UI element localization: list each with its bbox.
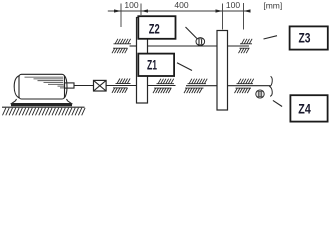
bearing shaft III right upper hatch bbox=[238, 79, 254, 84]
leader to shaft II circle bbox=[186, 27, 198, 39]
arrow tip right at x121 bbox=[114, 9, 121, 12]
svg-text:Z4: Z4 bbox=[298, 102, 311, 117]
arrow tip left at x243.5 bbox=[244, 9, 251, 12]
motor base foot bar bbox=[11, 104, 72, 107]
bearing shaft I right lower line bbox=[154, 87, 172, 89]
shaft III circled numeral bbox=[256, 90, 264, 98]
leader to label Z3 bbox=[264, 36, 278, 39]
svg-text:Z3: Z3 bbox=[299, 30, 311, 45]
motor right end cap bbox=[64, 76, 67, 99]
shaft I axis: gear Z1 to right bearing bbox=[148, 85, 176, 87]
svg-text:100: 100 bbox=[124, 0, 138, 10]
extension line at gear column A bbox=[140, 4, 142, 16]
svg-text:Z1: Z1 bbox=[147, 58, 157, 73]
motor shading lines bbox=[25, 76, 64, 78]
leader from label Z1 bbox=[177, 63, 192, 71]
bearing shaft I left upper line bbox=[116, 83, 131, 85]
svg-text:400: 400 bbox=[174, 0, 188, 10]
motor left end cap bbox=[14, 76, 19, 99]
shaft III axis bbox=[186, 85, 270, 87]
bearing shaft II right lower hatch bbox=[239, 48, 250, 53]
extension line at left bearing bbox=[120, 4, 122, 28]
extension line at right bearing bbox=[243, 3, 245, 30]
leader to label Z4 bbox=[273, 100, 282, 106]
bearing shaft II left upper line bbox=[114, 43, 132, 45]
shaft II axis: gear column B to right bearing bbox=[228, 45, 250, 47]
label box Z2 bbox=[138, 16, 175, 39]
svg-text:Z2: Z2 bbox=[149, 21, 160, 36]
bearing shaft III left lower hatch bbox=[184, 88, 202, 93]
ground line bbox=[2, 106, 85, 108]
bearing shaft III right lower hatch bbox=[235, 88, 251, 93]
output brace bbox=[270, 76, 272, 96]
shaft II axis: gear column A to gear column B bbox=[148, 45, 218, 47]
dimension line bbox=[108, 10, 251, 12]
bearing shaft III left upper line bbox=[188, 83, 207, 85]
ground hatch bbox=[3, 108, 86, 116]
motor shaft stub bbox=[65, 83, 75, 88]
bearing shaft I left lower hatch bbox=[112, 88, 128, 93]
coupling box bbox=[94, 80, 107, 91]
shaft I axis: coupling to gear Z1 bbox=[106, 85, 136, 87]
svg-text:[mm]: [mm] bbox=[263, 0, 282, 10]
bearing shaft III left upper hatch bbox=[189, 79, 207, 84]
motor body bbox=[19, 74, 65, 99]
coupling X diagonal 2 bbox=[94, 80, 107, 91]
gear column B (Z3 over Z4) bbox=[217, 31, 228, 111]
bearing shaft II right lower line bbox=[240, 47, 250, 49]
bearing shaft II left upper hatch bbox=[115, 39, 131, 44]
bearing shaft II left lower line bbox=[113, 47, 128, 49]
bearing shaft I right upper hatch bbox=[158, 79, 174, 84]
bearing shaft I left lower line bbox=[113, 87, 128, 89]
bearing shaft I left upper hatch bbox=[117, 79, 130, 84]
bearing shaft II right upper line bbox=[240, 43, 252, 45]
bearing shaft II right upper hatch bbox=[242, 39, 253, 44]
bearing shaft I right upper line bbox=[157, 83, 175, 85]
arrow tip right at x222.5 bbox=[216, 9, 223, 12]
coupling X diagonal 1 bbox=[94, 80, 107, 91]
bearing shaft III left lower line bbox=[185, 87, 204, 89]
arrow tip left at x141 bbox=[141, 9, 148, 12]
shaft II circled numeral bbox=[196, 38, 205, 46]
label box Z4 bbox=[290, 95, 327, 121]
bearing shaft III right upper line bbox=[237, 83, 254, 85]
gear column A (Z2 over Z1) bbox=[137, 18, 148, 104]
shaft II axis: bearing to gear column A bbox=[130, 45, 137, 47]
label box Z3 bbox=[290, 26, 328, 49]
label box Z1 bbox=[138, 54, 174, 76]
bearing shaft II left lower hatch bbox=[112, 48, 128, 53]
bearing shaft III right lower line bbox=[236, 87, 252, 89]
bearing shaft I right lower hatch bbox=[153, 88, 171, 93]
svg-text:100: 100 bbox=[226, 0, 240, 10]
motor base bbox=[12, 99, 72, 104]
shaft I axis: stub to coupling bbox=[74, 85, 94, 87]
extension line at gear column B bbox=[222, 4, 224, 30]
